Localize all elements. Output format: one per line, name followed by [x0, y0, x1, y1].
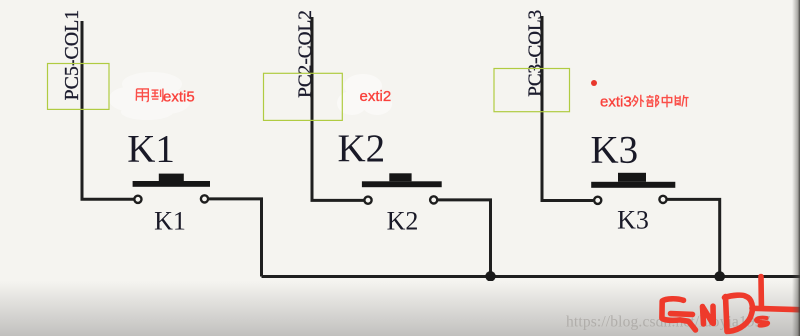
svg-text:K1: K1	[127, 128, 175, 171]
wire K3 right terminal to ground bus	[667, 199, 719, 276]
wire K1 right terminal to ground bus	[209, 199, 262, 277]
pushbutton K1 body bar	[133, 181, 210, 187]
annotation 用到exti5	[136, 89, 163, 102]
pushbutton K3 actuator bump	[618, 173, 646, 182]
pushbutton K3 body bar	[591, 182, 675, 188]
pushbutton K2 right terminal	[430, 196, 437, 203]
svg-text:PC5-COL1: PC5-COL1	[61, 10, 83, 101]
部	[646, 95, 658, 107]
svg-text:K3: K3	[591, 128, 639, 171]
junction K3-bus	[714, 271, 725, 282]
svg-text:exti5: exti5	[163, 88, 195, 105]
pushbutton K2 body bar	[362, 181, 442, 187]
pushbutton K1 right terminal	[201, 195, 208, 202]
svg-text:K3: K3	[617, 206, 649, 235]
annotation GND doodle	[662, 277, 800, 332]
wire column1 vertical + stub to K1 left terminal	[82, 21, 134, 199]
pushbutton K2 actuator bump	[389, 173, 411, 181]
bottom gradient band	[0, 281, 800, 336]
letter G	[662, 299, 696, 330]
highlight box PC2	[264, 73, 343, 120]
svg-text:K1: K1	[154, 206, 186, 235]
watermark blob left	[109, 72, 190, 120]
ground symbol lower squiggle	[756, 318, 768, 326]
wire K2 right terminal to ground bus	[438, 200, 491, 277]
pushbutton K2 left terminal	[364, 197, 371, 204]
highlight box PC5	[48, 64, 110, 110]
svg-text:K2: K2	[387, 206, 419, 235]
ground symbol stem	[758, 277, 764, 307]
wire column3 vertical + stub to K3 left terminal	[542, 16, 593, 201]
annotation red dot	[591, 80, 597, 86]
svg-text:K2: K2	[338, 127, 386, 170]
right edge shadow	[792, 0, 800, 336]
pushbutton K3 right terminal	[659, 196, 666, 203]
wire ground bus	[262, 275, 800, 278]
pushbutton K1 left terminal	[134, 196, 141, 203]
用	[136, 89, 148, 102]
wire column2 vertical + stub to K2 left terminal	[312, 17, 364, 200]
中	[662, 95, 671, 108]
pushbutton K1 actuator bump	[159, 174, 184, 182]
断	[675, 95, 688, 107]
highlight box PC3	[494, 69, 570, 112]
pushbutton K3 left terminal	[594, 197, 601, 204]
svg-text:exti3: exti3	[600, 94, 632, 111]
letter D	[725, 295, 753, 331]
ground symbol long bar	[752, 308, 800, 309]
letter N	[703, 306, 714, 324]
watermark blob middle	[337, 74, 392, 115]
svg-text:exti2: exti2	[360, 88, 392, 105]
junction K2-bus	[485, 271, 495, 281]
到	[151, 89, 163, 102]
外	[632, 95, 644, 107]
